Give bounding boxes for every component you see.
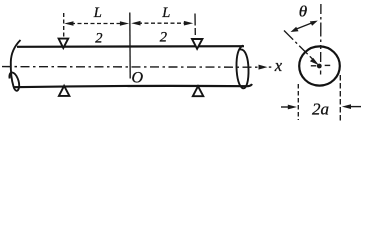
bottom-right support triangle (point up)	[193, 86, 204, 96]
svg-text:2: 2	[95, 31, 102, 47]
dimension line L/2 left segment (dashed)	[71, 23, 122, 25]
diagonal radial line at angle theta (dash-dot)	[284, 31, 316, 63]
svg-text:2a: 2a	[312, 100, 329, 119]
cross-section circle	[299, 46, 340, 85]
svg-text:L: L	[161, 5, 170, 21]
2a right arrowhead pointing left	[342, 104, 351, 109]
vertical centerline of circle (dash-dot)	[320, 4, 322, 75]
angle arrowhead toward diagonal (points down-left)	[291, 27, 299, 32]
top-right support triangle (point down)	[192, 39, 202, 49]
horizontal center mark right dash	[325, 64, 331, 66]
beam centerline axis (dash-dot)	[2, 66, 259, 69]
angle dimension leader line	[295, 22, 314, 30]
beam bottom line	[13, 84, 252, 87]
svg-text:2: 2	[160, 29, 167, 45]
center dot	[317, 64, 322, 69]
right dimension arrowhead pointing right at center	[120, 21, 129, 26]
svg-text:O: O	[132, 70, 144, 87]
dimension line L/2 right segment (dashed)	[138, 22, 186, 24]
angle arrowhead toward vertical line (points up-right)	[310, 21, 318, 26]
svg-text:L: L	[93, 5, 102, 21]
2a right extension line (dashed)	[339, 75, 341, 123]
top-left support triangle (point down)	[59, 39, 69, 48]
arrowhead of radial line at center	[310, 58, 319, 65]
x-axis arrowhead	[259, 65, 268, 70]
x-axis dash after arrow	[269, 66, 272, 68]
left arrowhead of right segment pointing left	[131, 21, 140, 26]
svg-text:x: x	[274, 56, 283, 75]
center vertical line through O	[129, 13, 131, 79]
left extension line (dashed)	[63, 13, 65, 37]
beam right end cap	[236, 46, 248, 89]
horizontal center mark left dash	[311, 65, 317, 67]
2a left extension line (dashed)	[297, 84, 299, 120]
right extension line	[194, 14, 196, 36]
svg-text:θ: θ	[299, 4, 308, 21]
bottom-left support triangle (point up)	[59, 86, 70, 96]
left dimension arrowhead pointing left	[64, 21, 73, 26]
2a left arrowhead pointing right	[288, 105, 297, 110]
2a right arrow line	[349, 106, 361, 108]
beam top line	[17, 45, 244, 48]
right arrowhead of right segment pointing right	[184, 21, 193, 26]
2a left arrow line	[281, 106, 290, 108]
beam left end cap	[9, 40, 20, 91]
